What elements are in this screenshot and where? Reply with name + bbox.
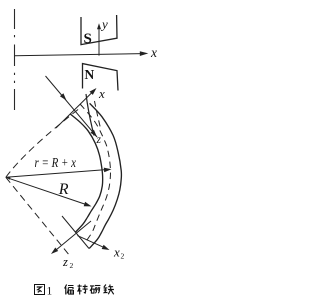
dashed radius ray to entrance	[6, 109, 79, 177]
z2 exit tangent axis	[55, 221, 92, 251]
y axis arrow in magnet gap	[98, 29, 100, 56]
inner orbit boundary arc	[70, 114, 103, 232]
outer orbit boundary arc	[89, 103, 121, 248]
svg-text:2: 2	[121, 252, 125, 261]
vertex point arrowhead	[6, 177, 11, 180]
svg-text:r = R + x: r = R + x	[35, 156, 77, 171]
S pole piece	[81, 15, 117, 45]
svg-text:x: x	[150, 45, 157, 60]
beam axis dash-dot line	[14, 9, 16, 110]
extra entrance-zone stroke	[86, 94, 94, 136]
svg-text:x: x	[113, 245, 120, 260]
caption: 图1 偏转磁铁	[35, 285, 45, 295]
x axis of pole cross-section	[15, 54, 143, 56]
svg-text:y: y	[100, 17, 108, 32]
entrance edge line / x1 axis arrow	[56, 92, 93, 129]
N pole piece	[83, 64, 119, 91]
incoming beam line / z1 axis	[46, 76, 98, 137]
svg-text:z: z	[62, 255, 68, 269]
x2 exit radial axis	[77, 236, 104, 248]
entrance-zone dashed segment	[95, 101, 101, 128]
central orbit dashed arc	[80, 104, 110, 243]
svg-text:2: 2	[70, 261, 74, 270]
dashed radius ray to exit	[6, 177, 70, 256]
R measuring ray	[6, 177, 86, 204]
svg-text:N: N	[85, 67, 95, 82]
r = R + x measuring ray	[6, 170, 106, 178]
exit edge line	[62, 216, 89, 249]
svg-text:S: S	[84, 31, 92, 47]
svg-text:x: x	[98, 86, 105, 101]
svg-text:R: R	[58, 181, 69, 198]
svg-text:1: 1	[47, 286, 53, 298]
